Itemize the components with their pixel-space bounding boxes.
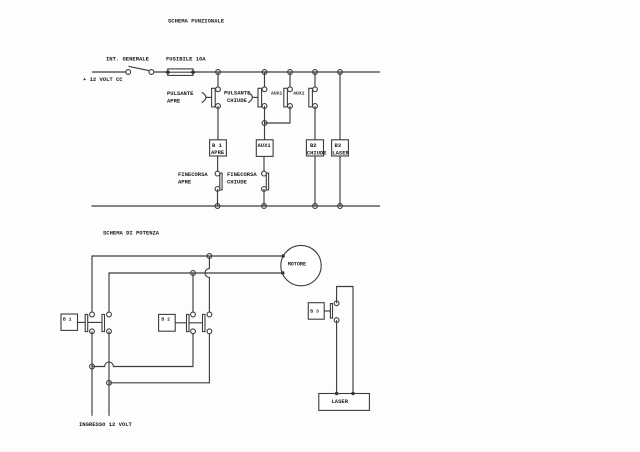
svg-text:APRE: APRE [211,149,225,156]
pushbutton PULSANTE APRE [202,87,221,109]
wire: B2 actuator link [175,322,202,324]
wire: cross wire to contact B2a with hop over B1b column [92,333,193,367]
limit switch FINECORSA APRE [215,171,222,191]
wire: switch to top bus / fuse [154,71,380,73]
wire: bottom return bus [92,205,381,207]
node: top bus junction AUX1a column [288,70,293,75]
wire: contact B1a down to input rail [91,331,93,416]
svg-text:INGRESSO 12 VOLT: INGRESSO 12 VOLT [79,421,133,428]
limit switch FINECORSA CHIUDE [262,171,269,191]
fuse FUSIBILE 10A [165,69,195,76]
wire: column AUX1a from bus [289,72,291,89]
svg-text:CHIUDE: CHIUDE [227,97,248,104]
label: SCHEMA DI POTENZA title [103,230,160,237]
wire: coil B1 to limit switch [217,156,219,174]
wire: button B1 to coil B1 [217,106,219,140]
coil B2 (power schema) [159,314,176,331]
contact B3 [330,301,339,323]
coil B1 (power schema) [61,314,78,330]
node: bottom bus junction B1 column [215,204,220,209]
wire: contact B1b down to input rail [108,331,110,416]
wire: motor feed upper (contact K1a to motor) [92,256,283,313]
pushbutton PULSANTE CHIUDE [248,87,267,109]
svg-text:SCHEMA FUNZIONALE: SCHEMA FUNZIONALE [168,18,225,25]
coil AUX1 [256,140,273,157]
wire: button chiude down to coil AUX1 [264,106,266,140]
node: laser left terminal [335,392,338,395]
svg-text:APRE: APRE [167,97,181,104]
label: INT. GENERALE [106,56,150,63]
contact B2 (a) [187,312,196,334]
svg-text:B 1: B 1 [212,142,223,149]
node: bottom bus junction chiude column [262,204,267,209]
coil B3 (power schema) [308,303,324,320]
contact B2 (b) [203,312,212,334]
contact B1 (a) [85,312,94,334]
wire: contact B3 bottom to laser left terminal [336,320,338,393]
svg-text:LASER: LASER [332,398,349,405]
svg-text:FINECORSA: FINECORSA [178,171,208,178]
laser LASER [319,394,370,411]
wire: +12V feed to switch [92,71,126,73]
label: AUX1 contact a [271,91,282,97]
svg-text:AUX1: AUX1 [293,91,304,97]
node: junction on upper motor feed [207,254,212,259]
svg-text:FINECORSA: FINECORSA [227,171,257,178]
wire: column B1 from bus to button [217,72,219,89]
wire: limit switch to bottom bus [217,189,219,206]
wire: coil B2 to bottom bus [314,156,316,206]
node: top bus junction B1 column [216,70,221,75]
wire: cross wire to contact B2b [109,333,209,383]
wire: AUX1 (b) to coil B2 [314,106,316,140]
label: INGRESSO 12 VOLT [79,421,133,428]
svg-text:PULSANTE: PULSANTE [167,90,194,97]
svg-text:B 3: B 3 [310,309,319,315]
wire: column B2 from bus to button chiude [264,72,266,89]
coil B3 LASER [332,140,350,157]
contact AUX1 (a) [284,87,293,109]
node: motor lower terminal [281,271,284,274]
contact B1 (b) [102,312,111,334]
wire: column B3 from bus [339,72,341,140]
svg-text:B3: B3 [335,142,342,149]
wire: B3 actuator link [324,310,330,312]
svg-text:PULSANTE: PULSANTE [224,89,251,96]
wire: motor feed lower (contact K1b to motor) [109,273,283,313]
node: junction B1a column [90,364,95,369]
coil B2 CHIUDE [306,140,327,157]
node: top bus junction AUX1b column [313,70,318,75]
wire: contact B3 top over to laser right terminal [337,287,353,394]
label: AUX1 contact b [293,91,304,97]
wire: column AUX1b from bus [314,72,316,89]
wire: B1 actuator link [78,321,103,323]
wire: junction down to contact B2b with crossover hop [205,256,209,315]
wire: coil AUX1 to limit switch chiude [263,156,265,173]
label: FINECORSA APRE [178,171,208,186]
svg-text:INT. GENERALE: INT. GENERALE [106,56,150,63]
svg-text:APRE: APRE [178,179,192,186]
node: top bus junction B3 column [338,70,343,75]
svg-text:FUSIBILE 10A: FUSIBILE 10A [166,56,206,63]
label: SCHEMA FUNZIONALE title [168,18,225,25]
wire: AUX1 (a) down and left to junction [265,106,291,123]
wire: limit switch chiude to bottom bus [263,189,265,206]
node: junction on lower motor feed [191,271,196,276]
svg-text:B2: B2 [310,142,317,149]
node: junction B1b column [107,380,112,385]
coil B1 APRE [210,140,227,156]
svg-text:AUX1: AUX1 [258,142,272,149]
svg-text:SCHEMA DI POTENZA: SCHEMA DI POTENZA [103,230,160,237]
label: PULSANTE CHIUDE [224,89,251,104]
label: FUSIBILE 10A [166,56,206,63]
svg-text:CHIUDE: CHIUDE [307,150,328,157]
svg-text:B 1: B 1 [63,317,72,323]
node: bottom bus junction B3 column [338,204,343,209]
contact AUX1 (b) [309,87,318,109]
wire: coil B3 to bottom bus [339,156,341,206]
wire: junction down to contact B2a [192,273,194,315]
svg-text:CHIUDE: CHIUDE [227,179,248,186]
node: motor upper terminal [282,254,285,257]
svg-text:AUX1: AUX1 [271,91,282,97]
svg-text:LASER: LASER [332,150,349,157]
svg-text:B 2: B 2 [161,317,170,323]
svg-text:MOTORE: MOTORE [288,261,306,267]
motor MOTORE [281,245,321,285]
switch INT. GENERALE [126,66,154,74]
node: top bus junction chiude column [262,70,267,75]
svg-text:+ 12 VOLT CC: + 12 VOLT CC [83,76,123,83]
node: bottom bus junction B2 column [313,204,318,209]
label: PULSANTE APRE [167,90,194,105]
node: laser right terminal [351,392,354,395]
label: + 12 VOLT CC [83,76,123,83]
label: FINECORSA CHIUDE [227,171,257,186]
node: junction below button chiude [262,121,267,126]
